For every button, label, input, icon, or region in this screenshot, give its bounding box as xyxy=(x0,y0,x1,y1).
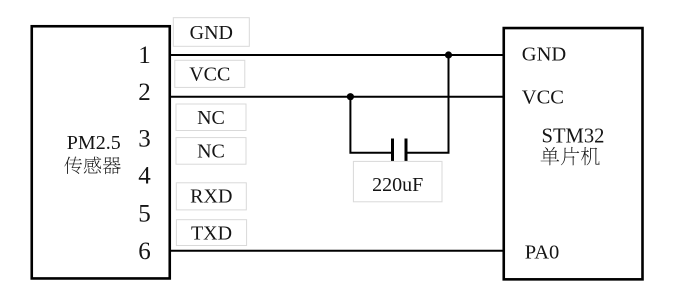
svg-text:VCC: VCC xyxy=(189,64,230,86)
U2 name label "单片机" (MCU) xyxy=(541,147,600,165)
net label box NC1 xyxy=(176,104,246,131)
svg-text:PA0: PA0 xyxy=(525,241,560,263)
svg-text:NC: NC xyxy=(197,141,225,163)
svg-text:2: 2 xyxy=(138,79,151,106)
net label box VCC xyxy=(175,60,245,87)
wire VCC net: U1 pin2 to U2 VCC xyxy=(170,96,504,98)
capacitor C1 left plate xyxy=(391,139,394,162)
svg-text:GND: GND xyxy=(522,44,566,66)
STM32 MCU box U2 xyxy=(504,28,643,279)
svg-text:TXD: TXD xyxy=(191,222,232,244)
svg-text:4: 4 xyxy=(138,163,151,190)
junction dot on GND net xyxy=(445,51,452,58)
wire GND net: U1 pin1 to U2 GND xyxy=(170,54,504,56)
wire TXD net: U1 pin6 to U2 PA0 xyxy=(170,250,504,252)
net label box TXD xyxy=(176,220,246,246)
svg-text:3: 3 xyxy=(138,126,151,153)
capacitor value label 220uF xyxy=(353,161,442,201)
capacitor C1 right plate xyxy=(405,139,408,162)
svg-text:GND: GND xyxy=(190,22,233,44)
PM2.5 sensor box U1 xyxy=(32,26,170,278)
U1 name label "传感器" (sensor) xyxy=(64,157,121,175)
net label box NC2 xyxy=(176,138,246,165)
net label box GND xyxy=(173,18,249,47)
svg-text:5: 5 xyxy=(138,201,151,228)
svg-text:NC: NC xyxy=(197,107,225,129)
svg-text:220uF: 220uF xyxy=(372,174,423,196)
junction dot on VCC net xyxy=(347,93,354,100)
net label box RXD xyxy=(176,183,246,210)
svg-text:PM2.5: PM2.5 xyxy=(67,132,121,154)
wire capacitor right leg from GND junction xyxy=(408,55,449,153)
svg-text:RXD: RXD xyxy=(190,185,232,207)
wire capacitor left leg from VCC junction xyxy=(350,97,391,153)
svg-text:VCC: VCC xyxy=(522,87,564,109)
svg-text:6: 6 xyxy=(138,238,151,265)
svg-text:1: 1 xyxy=(138,42,151,69)
svg-text:STM32: STM32 xyxy=(542,126,605,148)
